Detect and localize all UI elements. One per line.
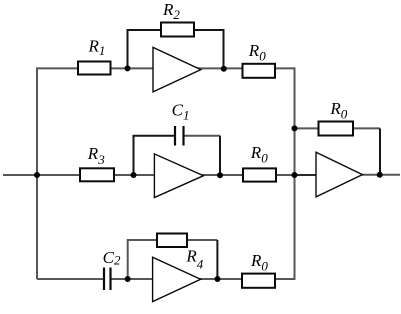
op-amp U3 <box>153 257 201 301</box>
wire top branch <box>36 67 295 69</box>
resistor R0 top <box>243 64 276 78</box>
resistor R0 feedback <box>319 122 354 136</box>
op-amp U2 <box>154 154 203 198</box>
wire C1 feedback left <box>134 136 176 175</box>
op-amp U1 <box>153 47 201 92</box>
capacitor C1 <box>175 126 184 146</box>
node U1 output junction <box>221 66 227 72</box>
resistor R4 <box>157 234 187 248</box>
wire left bus <box>36 68 38 279</box>
resistor R3 <box>80 168 114 181</box>
svg-text:R0: R0 <box>250 251 268 273</box>
svg-text:C2: C2 <box>103 248 121 268</box>
wire final feedback right vertical <box>379 128 381 174</box>
wire bottom branch right <box>111 278 295 280</box>
node input junction <box>34 172 40 178</box>
wire bottom branch left <box>37 278 104 280</box>
wire R4 feedback right vertical <box>216 240 218 279</box>
svg-text:R0: R0 <box>250 143 268 165</box>
node U3 output junction <box>215 276 221 282</box>
svg-text:R2: R2 <box>162 0 180 22</box>
svg-text:R0: R0 <box>329 99 347 122</box>
resistor R0 middle <box>243 168 276 181</box>
wire output of final op-amp <box>362 174 400 176</box>
svg-text:C1: C1 <box>172 101 190 123</box>
node input net <box>3 174 295 176</box>
node C2 output junction <box>125 276 131 282</box>
svg-text:R0: R0 <box>248 41 266 63</box>
wire C1 feedback right vertical <box>219 136 221 175</box>
node summing junction <box>292 172 298 178</box>
svg-text:R1: R1 <box>88 37 106 59</box>
wire R4 feedback left <box>128 240 157 279</box>
svg-text:R3: R3 <box>87 144 105 167</box>
resistor R0 bottom <box>242 274 275 288</box>
node R1 output junction <box>125 65 131 71</box>
wire R4 feedback right horizontal <box>187 239 217 241</box>
capacitor C2 <box>104 268 111 291</box>
node R3 output junction <box>131 172 137 178</box>
svg-text:R4: R4 <box>185 246 203 271</box>
op-amp U4 <box>316 152 362 197</box>
wire final feedback horizontal <box>295 127 381 129</box>
node output junction <box>377 172 383 178</box>
wire C1 feedback right horizontal <box>184 135 221 137</box>
wire right bus <box>294 67 296 280</box>
resistor R2 <box>161 23 194 37</box>
node feedback tap junction <box>292 125 298 131</box>
resistor R1 <box>78 62 111 75</box>
node U2 output junction <box>217 172 223 178</box>
wire final op-amp input stub <box>295 174 317 176</box>
wire R2 feedback loop <box>128 30 224 68</box>
